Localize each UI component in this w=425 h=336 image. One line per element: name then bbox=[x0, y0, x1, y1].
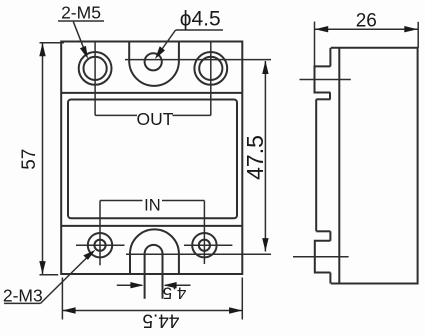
top terminal band line bbox=[61, 92, 242, 94]
IN label bracket left bbox=[100, 200, 143, 202]
dimension 47.5 line bbox=[264, 61, 266, 252]
label 2-M5 underline bbox=[58, 20, 104, 22]
arrowhead 44.5 left bbox=[62, 307, 75, 313]
dimension 4.5 arrow shaft right bbox=[165, 284, 191, 286]
dimension 26 line bbox=[315, 28, 419, 30]
dimension 26 extension right bbox=[417, 22, 419, 48]
side view front face line bbox=[338, 48, 340, 284]
label 2-M3 underline bbox=[4, 302, 41, 304]
label phi4.5 underline bbox=[176, 29, 223, 31]
arrowhead leader 2-M5 bbox=[80, 46, 88, 59]
side view bottom screw center line bbox=[293, 256, 349, 258]
M5 right center line bbox=[210, 42, 212, 116]
front view body outline bbox=[61, 42, 242, 275]
dimension 44.5 extension right bbox=[241, 278, 243, 320]
label 2-M5 leader bbox=[73, 22, 86, 54]
arrowhead 57 down bbox=[39, 261, 45, 274]
input screw M3 left bbox=[88, 233, 112, 257]
side view base step top bbox=[316, 98, 330, 100]
IN label bracket right bbox=[162, 200, 204, 202]
svg-text:2-M5: 2-M5 bbox=[61, 2, 101, 22]
dimension 44.5 extension left bbox=[61, 278, 63, 320]
svg-text:47.5: 47.5 bbox=[242, 135, 268, 180]
label 2-M3 leader bbox=[41, 256, 90, 304]
svg-text:26: 26 bbox=[356, 10, 377, 31]
label phi4.5 leader bbox=[159, 30, 176, 54]
dimension 26 extension left bbox=[314, 22, 316, 67]
arrowhead leader 2-M3 bbox=[83, 250, 95, 260]
M3 right cross lines bbox=[184, 244, 232, 246]
arrowhead 4.5 right bbox=[163, 282, 176, 288]
dimension 44.5 line bbox=[62, 310, 242, 312]
inner face rectangle bbox=[68, 100, 237, 219]
side view top screw center line bbox=[300, 79, 351, 81]
side view cover edge above bottom screw bbox=[329, 231, 331, 241]
dimension 4.5 arrow shaft left bbox=[117, 284, 142, 286]
arrowhead 47.5 up bbox=[262, 61, 268, 74]
dimension 57 extension top bbox=[40, 42, 65, 44]
arrowhead 44.5 right bbox=[229, 307, 242, 313]
svg-text:OUT: OUT bbox=[137, 109, 174, 129]
terminal screw M5 left bbox=[79, 52, 112, 85]
side view top cover front edge bbox=[329, 48, 331, 67]
bottom terminal band line bbox=[61, 225, 242, 227]
M3 left cross lines bbox=[76, 244, 125, 246]
side view body outline bbox=[331, 48, 418, 284]
arrowhead leader phi4.5 bbox=[155, 46, 165, 59]
svg-text:IN: IN bbox=[144, 196, 161, 214]
bottom slot bbox=[145, 245, 163, 299]
side view top screw head bbox=[315, 66, 331, 92]
svg-text:44.5: 44.5 bbox=[142, 310, 179, 331]
side view cover edge below top screw bbox=[329, 93, 331, 100]
bottom mounting arch outer bbox=[130, 229, 179, 274]
OUT label bracket right bbox=[173, 114, 211, 116]
terminal screw M5 right bbox=[194, 52, 227, 85]
top hole center line bbox=[125, 59, 271, 61]
svg-text:2-M3: 2-M3 bbox=[3, 285, 43, 305]
OUT label bracket left bbox=[95, 114, 137, 116]
arrowhead 47.5 down bbox=[262, 238, 268, 251]
arrowhead 4.5 left bbox=[130, 282, 143, 288]
dimension 57 extension bottom bbox=[40, 274, 59, 276]
arrowhead 26 right bbox=[404, 26, 417, 32]
side view bottom screw head bbox=[315, 241, 331, 273]
bottom hole center line bbox=[126, 253, 271, 255]
side view cover edge below bottom screw bbox=[329, 273, 331, 284]
arrowhead 57 up bbox=[39, 43, 45, 56]
svg-text:ϕ4.5: ϕ4.5 bbox=[180, 8, 221, 31]
svg-text:57: 57 bbox=[19, 149, 40, 170]
hole phi4.5 bbox=[145, 53, 162, 70]
input screw M3 right bbox=[192, 233, 216, 257]
arrowhead 26 left bbox=[315, 26, 328, 32]
svg-text:4.5: 4.5 bbox=[163, 283, 187, 302]
side view base front edge bbox=[315, 99, 317, 231]
top mounting tab bbox=[129, 42, 179, 86]
dimension 57 line bbox=[42, 44, 44, 275]
side view base step bottom bbox=[316, 230, 330, 232]
M5 left center line bbox=[94, 42, 96, 116]
